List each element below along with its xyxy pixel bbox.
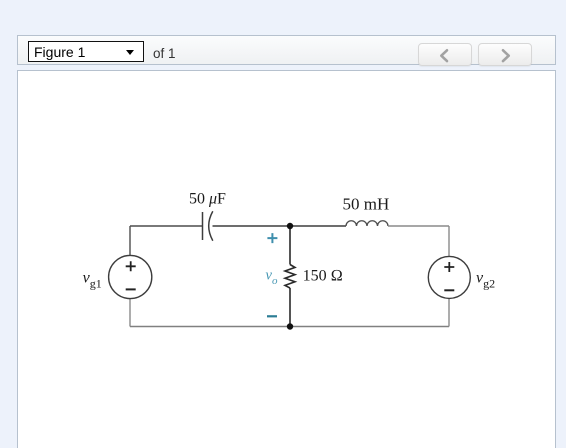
svg-text:vg1: vg1 bbox=[83, 270, 102, 291]
svg-text:50 mH: 50 mH bbox=[343, 194, 390, 213]
svg-text:vo: vo bbox=[266, 267, 278, 287]
svg-text:vg2: vg2 bbox=[476, 270, 495, 291]
svg-text:150 Ω: 150 Ω bbox=[303, 268, 343, 285]
svg-text:50 μF: 50 μF bbox=[189, 191, 226, 208]
